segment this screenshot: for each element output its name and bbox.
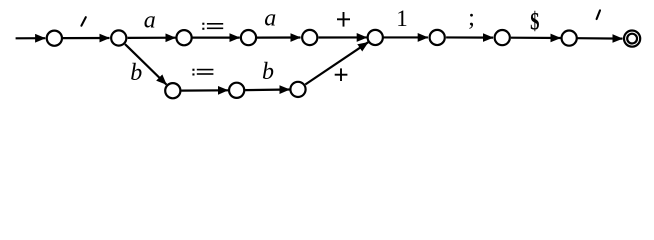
label assign2	[192, 69, 213, 76]
node S7	[495, 30, 510, 45]
node B2	[229, 83, 244, 98]
wire S3 to S4	[257, 36, 301, 38]
wire S0 to S1	[63, 37, 110, 39]
wire B3 to S5 diagonal	[305, 42, 368, 84]
wire S6 to S7	[446, 36, 493, 38]
svg-text:;: ;	[468, 4, 475, 31]
label plus1	[337, 12, 350, 27]
node S1	[111, 30, 126, 45]
svg-text:$: $	[530, 7, 539, 35]
svg-text:a: a	[144, 8, 156, 34]
node S9 final outer	[624, 30, 640, 46]
node S0	[47, 31, 62, 46]
node S3	[241, 30, 256, 45]
wire B2 to B3	[245, 88, 290, 91]
node S6	[430, 30, 445, 45]
wire S4 to S5	[319, 36, 367, 38]
node S2	[176, 30, 191, 45]
node B3	[290, 82, 305, 97]
node S8	[562, 30, 577, 45]
node B1	[165, 83, 180, 98]
wire start arrow	[16, 37, 46, 39]
wire B1 to B2	[181, 89, 228, 91]
wire S1 to S2	[128, 37, 176, 39]
node S5 merge	[368, 30, 383, 45]
node S4	[302, 30, 317, 45]
wire S2 to S3	[192, 36, 240, 38]
wire S7 to S8	[511, 37, 561, 39]
wire S1 to B1 diagonal	[125, 44, 167, 85]
svg-text:1: 1	[396, 6, 408, 31]
wire S5 to S6	[383, 36, 428, 38]
label quote2	[597, 10, 600, 19]
svg-text:b: b	[130, 60, 142, 86]
wire S8 to S9	[577, 37, 622, 40]
svg-text:a: a	[264, 6, 276, 32]
node S9 final inner	[627, 34, 637, 44]
label quote1	[81, 17, 85, 26]
label plus2	[335, 68, 348, 81]
label assign1	[202, 23, 223, 30]
svg-text:b: b	[262, 59, 274, 85]
